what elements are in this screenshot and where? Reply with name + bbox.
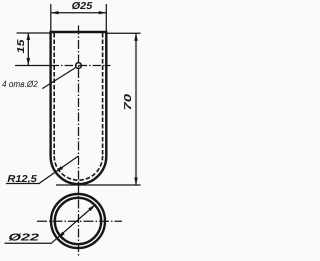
70 bottom arrow [134, 178, 138, 186]
vertical center line (axis of tube, front and bottom views) [78, 26, 80, 258]
Ø25 right extension line [105, 4, 107, 32]
svg-text:70: 70 [123, 93, 134, 110]
70 top extension line [107, 32, 141, 34]
tube top edge (mouth) [50, 31, 108, 33]
hole Ø2 [76, 63, 82, 69]
bottom view horizontal center line [37, 220, 122, 222]
tube outer right wall [105, 32, 107, 156]
Ø22 leader shelf and diagonal dimension line [5, 205, 96, 244]
70 dimension line [135, 33, 137, 185]
15 top extension line [17, 32, 51, 34]
tube inner right wall (hidden line) [102, 33, 104, 156]
svg-text:Ø25: Ø25 [72, 1, 93, 12]
15 bottom arrow [27, 58, 31, 66]
hole leader line (4 отв.Ø2) [42, 68, 75, 89]
label 15 [16, 39, 27, 54]
R12,5 arrow [55, 166, 63, 172]
Ø25 left arrow [51, 11, 59, 14]
Ø25 dimension line [51, 12, 106, 14]
tube inner left wall (hidden line) [53, 33, 55, 156]
70 bottom extension line [56, 184, 141, 186]
15 top arrow [27, 33, 31, 41]
R12,5 leader line [6, 156, 78, 184]
svg-text:Ø22: Ø22 [8, 233, 39, 244]
label 70 [123, 93, 134, 110]
tube outer left wall [49, 32, 51, 156]
svg-text:4 отв.Ø2: 4 отв.Ø2 [2, 79, 38, 89]
svg-text:15: 15 [16, 39, 27, 54]
horizontal center line of hole (also 15-dim lower extension) [15, 65, 51, 67]
Ø25 left extension line [50, 4, 52, 32]
tube outer bottom arc R12,5 [51, 156, 107, 184]
Ø25 right arrow [99, 11, 107, 14]
15 dimension line [27, 33, 29, 66]
svg-text:R12,5: R12,5 [7, 174, 37, 185]
70 top arrow [134, 33, 138, 41]
bottom view inner circle Ø22 [55, 198, 101, 244]
Ø22 upper-right arrow [88, 205, 95, 212]
tube inner bottom arc (hidden line) [54, 156, 102, 180]
bottom view outer circle Ø25 [51, 194, 105, 248]
Ø22 lower-left arrow [58, 232, 65, 239]
